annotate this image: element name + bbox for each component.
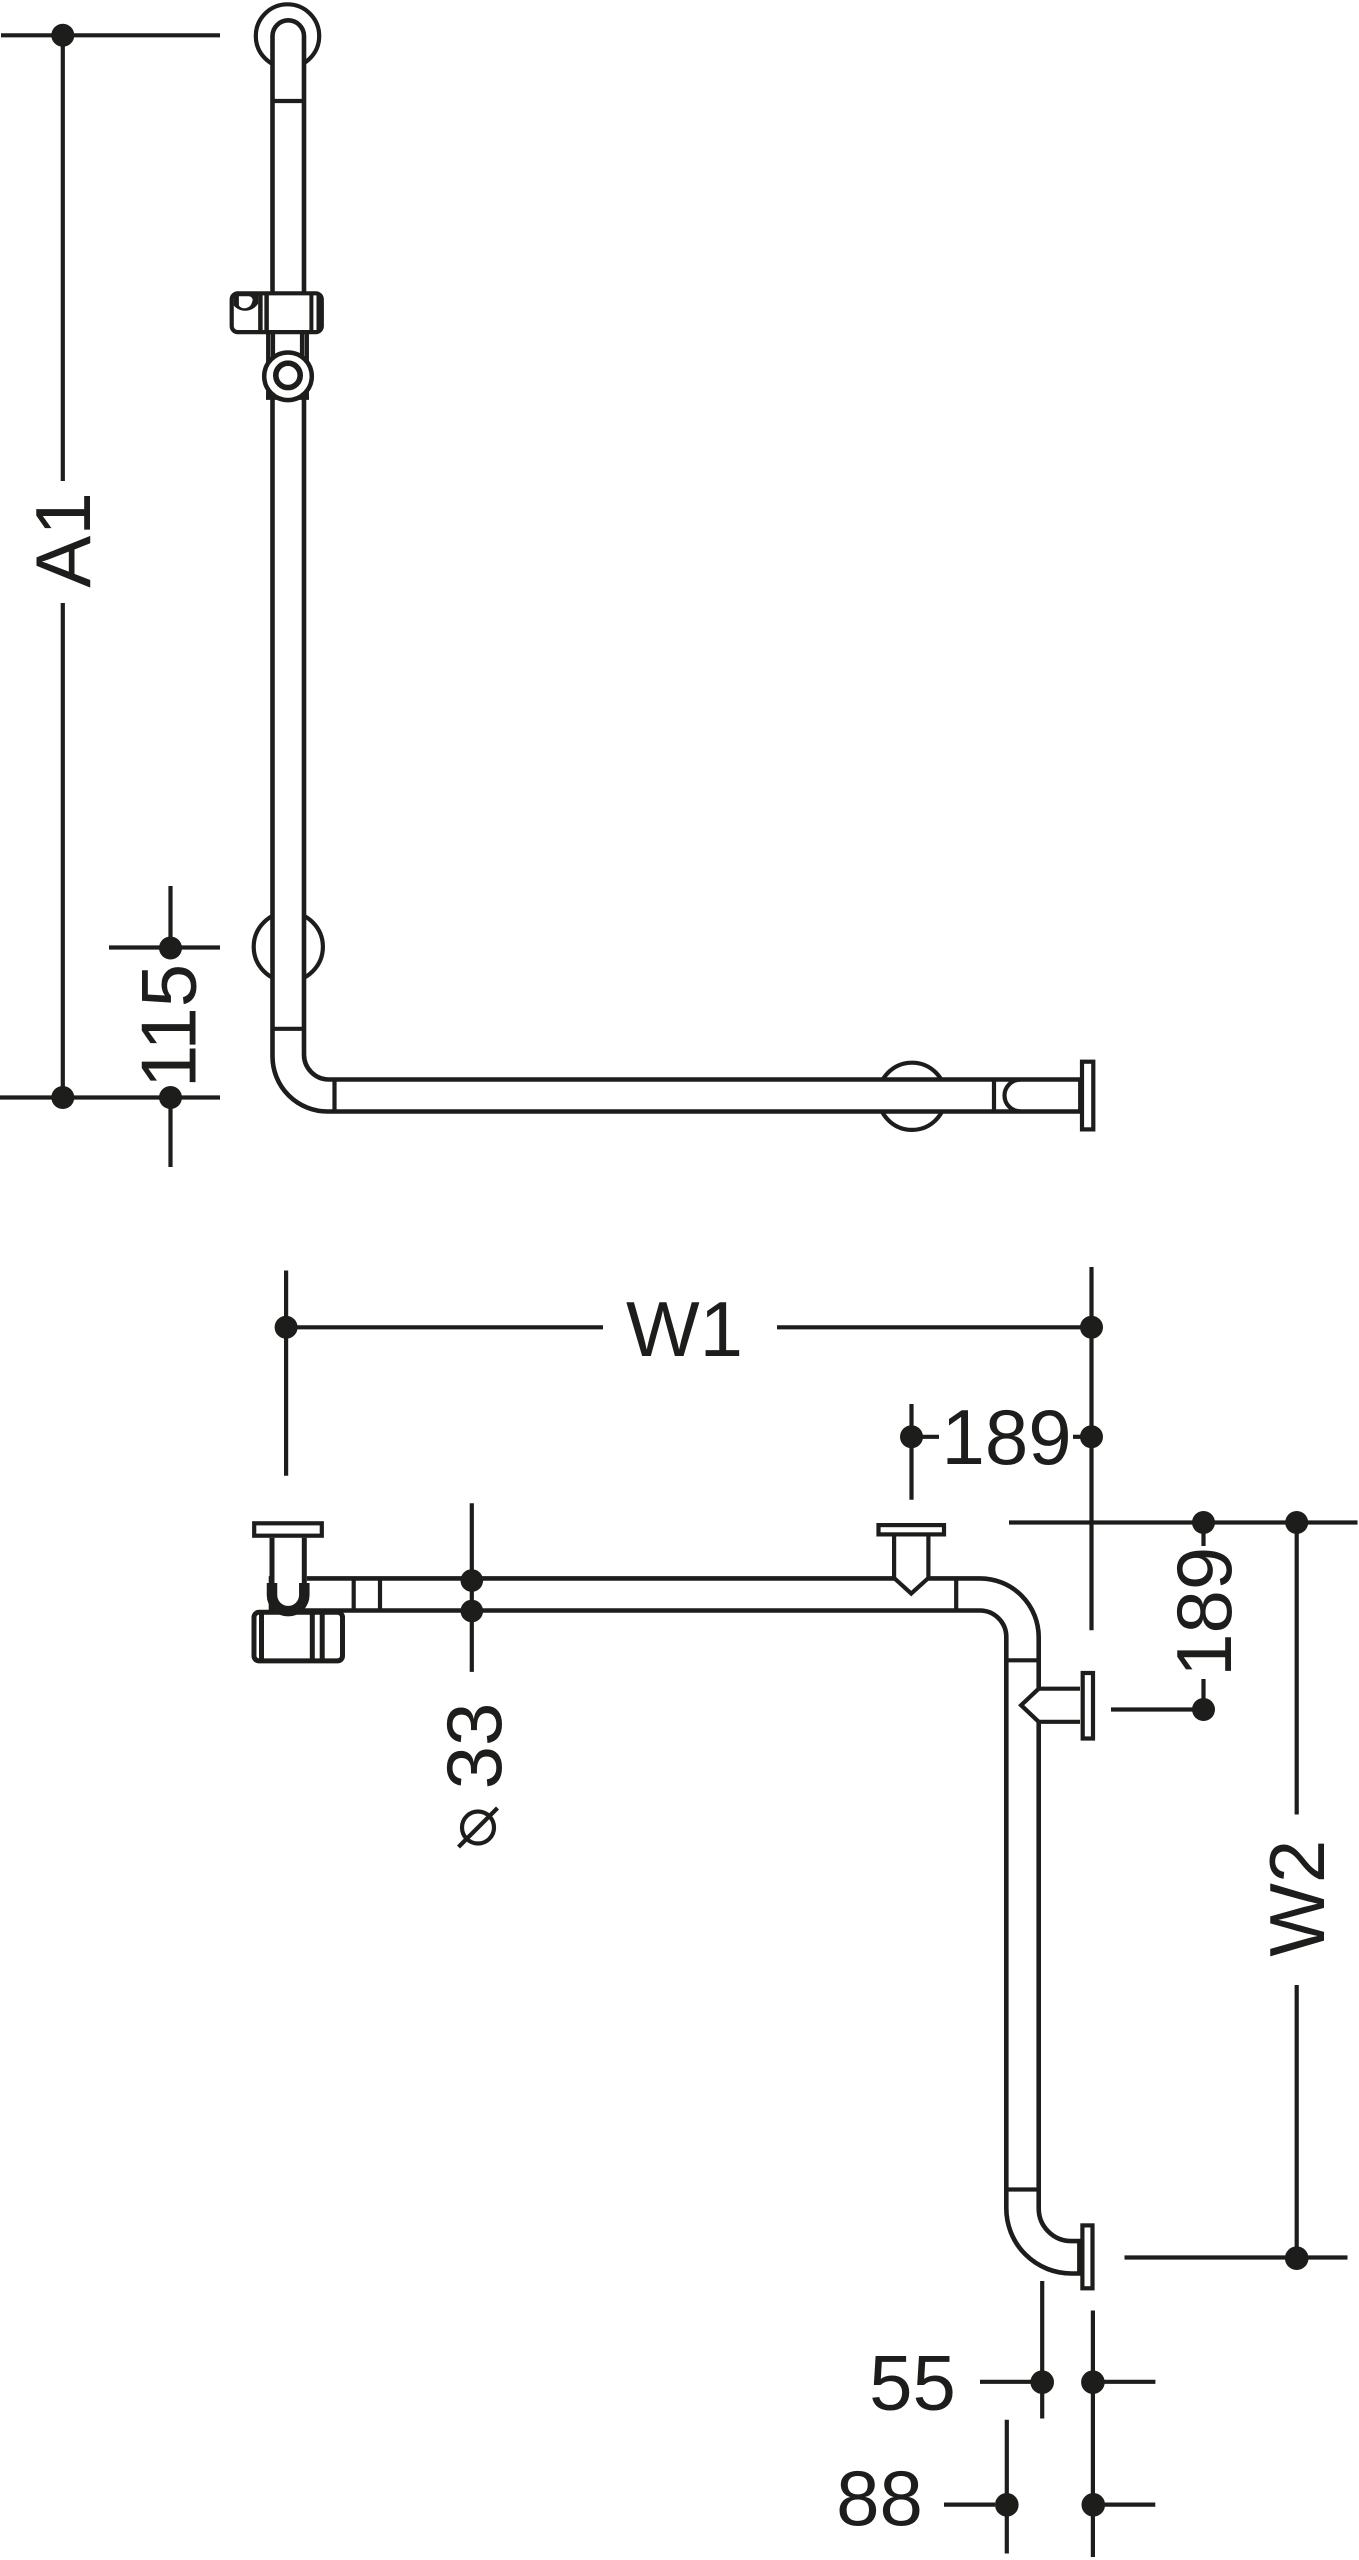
dimension dot 115 top [159,937,182,960]
dimension A1 top tick [1,33,220,37]
dimension dot ref W2 [1285,1511,1308,1534]
dimension dot 88 left [995,2493,1019,2517]
dimension dot 189 right [1080,1425,1103,1448]
wall rosette top (behind rail) [256,4,319,67]
dimension A1 extension line lower [61,603,65,1098]
dimension dot 115 bottom [159,1086,182,1109]
55/88 extension line right [1091,2311,1095,2558]
dimension dot A1 top [51,24,74,47]
flange plate right (side view) [1082,1062,1093,1130]
holder hook white notch [239,296,253,308]
cap joint line [273,99,305,103]
bottom wall flange plan [1082,2225,1092,2288]
mid support plan white fill [894,1536,928,1593]
mid support stem sides [892,1536,896,1578]
wall rosette middle left (behind rail) [254,912,323,981]
dimension dot 189 right lower [1192,1698,1215,1721]
svg-text:55: 55 [869,2339,956,2427]
plan tube joint lines left pair [352,1578,356,1610]
slider block front view [232,293,322,332]
W1 extension line left [284,1271,288,1476]
swivel inner ring [276,363,300,387]
diameter 33 extension line [470,1503,474,1672]
svg-text:189: 189 [942,1393,1072,1481]
svg-text:W2: W2 [1253,1840,1341,1957]
svg-text:115: 115 [125,964,213,1088]
dimension dot d33 bottom [461,1600,484,1623]
W1 extension line right [1089,1267,1093,1630]
block divider lines [258,293,263,332]
dimension 115 extension lower [168,1089,172,1167]
dimension 115 top tick [109,945,220,949]
left support stem plan [270,1538,275,1584]
plan tube horizontal run with corner and down leg (white filled) [271,1578,1079,2273]
plan down leg joint line lower [1006,2187,1038,2191]
side wall flange plan [1083,1673,1093,1739]
side support stem lines [1039,1687,1080,1691]
dimension 115 extension upper [168,886,172,957]
dimension dot d33 top [461,1569,484,1592]
bottom shared tick line [0,1095,220,1099]
dimension 88 line left [944,2503,995,2507]
dimension dot 189 left [900,1425,923,1448]
diameter symbol slash [459,1808,498,1847]
dimension W1 line left segment [286,1325,603,1329]
left support stem interior fill [270,1538,307,1586]
189 top extension line [909,1404,913,1500]
55 extension line left [1040,2281,1044,2419]
dimension A1 extension line upper [61,35,65,481]
dimension 88 line right [1105,2503,1155,2507]
left wall flange plan [254,1523,322,1535]
bend joint line horizontal tube [332,1080,336,1112]
dimension dot W1 right [1080,1316,1103,1339]
88 extension line left [1005,2420,1009,2554]
dimension 189 right stub upper [1201,1523,1205,1547]
dimension W1 line right segment [777,1325,1092,1329]
bend joint line vertical tube [273,1027,305,1031]
slider block plan view [254,1612,343,1661]
dimension dot ref 189 [1192,1511,1215,1534]
bracket right side [304,334,309,398]
svg-text:189: 189 [1160,1547,1248,1677]
dimension 189 right stub lower [1201,1679,1205,1710]
dimension dot 55 left [1030,2370,1054,2394]
left support rounded end (thick U) [272,1583,304,1611]
W2 extension lower [1295,1985,1299,2258]
dimension dot W1 left [275,1316,298,1339]
dimension 189 top segments [912,1435,940,1439]
W2 extension upper [1295,1523,1299,1815]
svg-text:W1: W1 [626,1285,743,1373]
side support arrow [1021,1689,1039,1722]
side support right white fill [1021,1687,1080,1724]
dimension line from side flange [1111,1707,1204,1711]
wall rosette bottom right (behind rail) [878,1063,945,1130]
svg-text:33: 33 [430,1703,518,1790]
swivel outer circle [264,353,312,401]
mid wall flange plan [879,1525,945,1534]
wall reference line [1009,1520,1358,1524]
bracket bottom line [266,395,309,400]
dimension dot 55 right [1081,2370,1105,2394]
rail body L-shaped with shower bar (white filled outline) [273,20,1081,1111]
dimension 55 line left [980,2380,1031,2384]
bracket left side [266,334,271,398]
svg-text:A1: A1 [19,492,107,587]
plan corner joint line [954,1578,958,1610]
diameter symbol circle [462,1812,494,1844]
dimension W2 line [1125,2255,1348,2259]
dimension dot A1 bottom [51,1086,74,1109]
holder clip dark body [234,293,259,310]
end cap arc [1004,1080,1020,1112]
tube lines inside bracket [271,334,275,398]
shower holder bracket fill [269,334,306,398]
end joint line horizontal tube [992,1080,996,1112]
plan down leg joint line upper [1006,1658,1038,1662]
mid support arrow [894,1578,928,1594]
dimension 55 line right [1104,2380,1155,2384]
dimension dot 88 right [1082,2493,1106,2517]
block plan divider lines [259,1612,264,1661]
dimension dot W2 [1285,2246,1309,2270]
svg-text:88: 88 [836,2454,923,2542]
